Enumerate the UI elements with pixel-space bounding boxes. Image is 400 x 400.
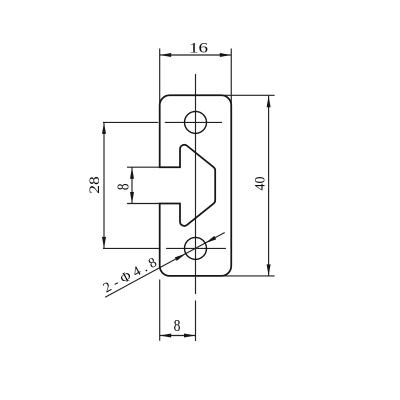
hole top	[185, 111, 207, 133]
dimension line 16	[160, 54, 232, 56]
extension lines dim 16	[160, 49, 232, 107]
svg-text:40: 40	[252, 177, 268, 191]
dimension line 8 bottom	[160, 335, 196, 337]
svg-text:28: 28	[87, 176, 103, 194]
part outline profile with T-slot	[160, 95, 232, 276]
centerline vertical axis	[195, 74, 197, 341]
centerline top hole horizontal	[103, 121, 222, 123]
svg-text:8: 8	[174, 316, 181, 335]
arrowheads dim 16	[160, 53, 172, 57]
leader line 2-phi4.8	[105, 233, 225, 298]
svg-text:16: 16	[189, 41, 208, 57]
centerline bottom hole horizontal	[103, 247, 226, 249]
hole bottom	[185, 237, 207, 259]
extension line dim 8 bottom	[159, 280, 161, 341]
svg-text:8: 8	[113, 184, 132, 191]
extension lines dim 8 slot	[127, 167, 161, 203]
dimension line 28	[103, 122, 105, 248]
dimension line 8 slot	[131, 167, 133, 203]
extension lines dim 40	[222, 95, 275, 276]
arrowheads dim 40	[267, 96, 271, 108]
arrowheads dim 8 slot	[130, 167, 134, 179]
dimension line 40	[268, 96, 270, 276]
arrowheads dim 8 bottom	[160, 334, 172, 338]
arrowheads hole leader	[205, 236, 216, 243]
arrowheads dim 28	[102, 122, 106, 133]
